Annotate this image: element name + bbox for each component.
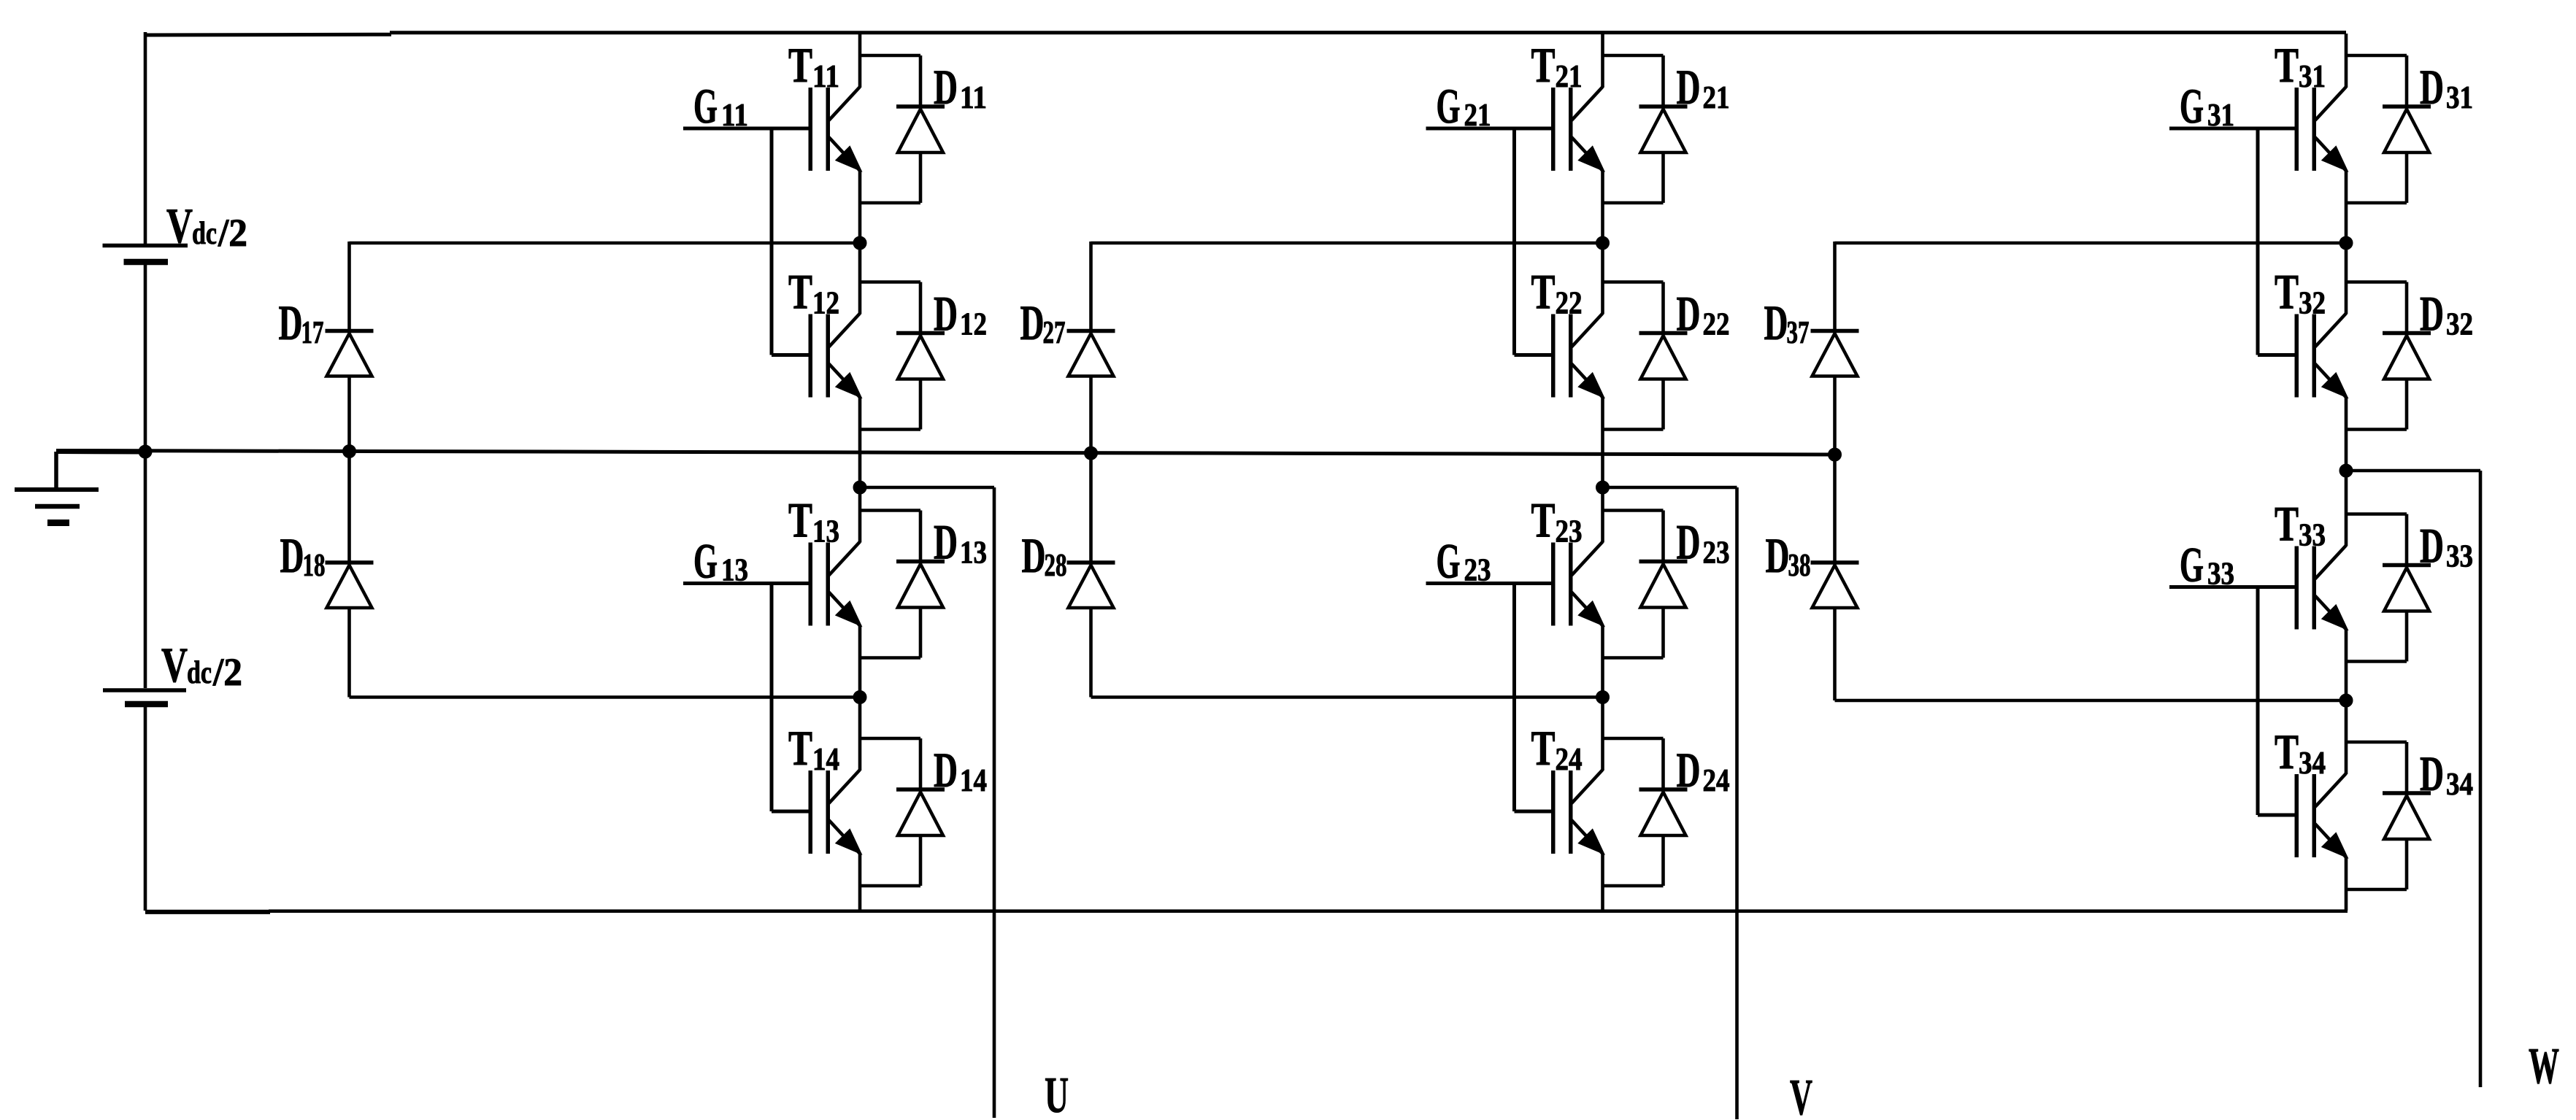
- wire: gate link T11-T12: [770, 128, 774, 355]
- wire: gate spur to T12: [772, 353, 812, 357]
- wire: leg 3 collector of T31 from DC+ rail: [2345, 34, 2348, 88]
- svg-text:T: T: [2275, 496, 2299, 552]
- clamp diode D27: [1067, 331, 1115, 376]
- wire: output branch W: [2346, 469, 2480, 473]
- svg-text:T: T: [788, 493, 812, 548]
- svg-text:G: G: [2180, 537, 2204, 592]
- wire: collector of T23: [1601, 487, 1604, 543]
- wire: D28 anode down: [1089, 608, 1093, 698]
- wire: collector of T33: [2345, 471, 2348, 547]
- node: clamp midpoint on neutral bus: [1829, 448, 1842, 461]
- svg-text:G: G: [1437, 78, 1461, 134]
- transistor T14 (IGBT): [809, 770, 861, 854]
- diode D34 (anti-parallel): [2346, 742, 2431, 889]
- battery V_dc/2 (upper): [103, 244, 188, 248]
- svg-text:38: 38: [1788, 547, 1811, 583]
- svg-text:13: 13: [812, 514, 839, 549]
- svg-text:24: 24: [1703, 762, 1730, 798]
- transistor T22 (IGBT): [1551, 314, 1604, 398]
- node: T21/T22 junction: [1596, 236, 1610, 250]
- wire: output branch V: [1603, 486, 1737, 490]
- transistor T31 (IGBT): [2295, 87, 2348, 171]
- svg-text:D: D: [1766, 528, 1790, 583]
- diode D33 (anti-parallel): [2346, 514, 2431, 662]
- wire: collector of T24: [1601, 698, 1604, 771]
- wire: emitter of T23 to junction: [1601, 626, 1604, 698]
- wire: gate link T33-T34: [2256, 587, 2260, 816]
- svg-text:D: D: [2420, 746, 2444, 801]
- wire: leg 1 collector of T11 from DC+ rail: [858, 34, 862, 88]
- wire: neutral bus (midpoint): [56, 451, 1835, 455]
- gate wire G33: [2169, 585, 2299, 589]
- wire: D18 to T13/T14 junction: [350, 695, 861, 699]
- wire: emitter of T21 to junction: [1601, 171, 1604, 243]
- diode D21 (anti-parallel): [1603, 55, 1688, 203]
- svg-text:G: G: [693, 533, 718, 589]
- gate wire G11: [683, 127, 812, 131]
- svg-text:T: T: [1531, 493, 1556, 548]
- wire: output line V down: [1735, 487, 1739, 1119]
- svg-text:T: T: [2275, 724, 2299, 779]
- wire: ground branch stub: [56, 449, 145, 455]
- wire: DC bus left column (battery string): [144, 32, 147, 244]
- wire: collector of T34: [2345, 700, 2348, 774]
- clamp diode D38: [1811, 563, 1859, 608]
- svg-text:V: V: [1790, 1070, 1812, 1120]
- wire: output line W down: [2479, 471, 2483, 1087]
- wire: junction to clamp diode D27: [1091, 242, 1603, 245]
- node: phase output junction V: [1596, 481, 1610, 494]
- svg-text:G: G: [1437, 533, 1461, 589]
- wire: D37 anode to neutral: [1833, 376, 1837, 455]
- wire: battery column bottom segment: [144, 707, 147, 911]
- svg-text:18: 18: [303, 547, 326, 583]
- svg-text:T: T: [788, 720, 812, 776]
- clamp diode D17: [326, 331, 374, 376]
- wire: emitter of T14 to DC- rail: [858, 854, 862, 911]
- svg-text:/2: /2: [212, 650, 242, 694]
- wire: collector of T13: [858, 487, 862, 543]
- svg-text:D: D: [2420, 59, 2444, 115]
- transistor T24 (IGBT): [1551, 770, 1604, 854]
- svg-text:/2: /2: [218, 211, 247, 255]
- svg-text:34: 34: [2299, 745, 2326, 781]
- svg-text:T: T: [2275, 37, 2299, 93]
- node: battery midpoint / neutral junction: [139, 445, 152, 458]
- svg-text:22: 22: [1703, 306, 1730, 342]
- svg-text:G: G: [2180, 78, 2204, 134]
- diode D24 (anti-parallel): [1603, 738, 1688, 886]
- wire: negative DC rail (bottom, left span): [145, 910, 270, 914]
- wire: D27 anode to neutral: [1089, 376, 1093, 454]
- diode D12 (anti-parallel): [860, 282, 945, 430]
- diode D22 (anti-parallel): [1603, 282, 1688, 430]
- svg-text:D: D: [1677, 514, 1701, 570]
- wire: gate link T31-T32: [2256, 128, 2260, 355]
- svg-text:14: 14: [812, 741, 839, 777]
- node: phase output junction U: [853, 481, 866, 494]
- wire: neutral to D28 cathode: [1089, 453, 1093, 563]
- wire: gate spur to T22: [1515, 353, 1556, 357]
- wire: junction to clamp diode D37: [1835, 242, 2347, 245]
- wire: emitter of T22 to output junction (crosses neutral): [1601, 398, 1604, 488]
- ground: [54, 452, 58, 490]
- svg-text:U: U: [1045, 1067, 1069, 1120]
- svg-text:V: V: [161, 637, 188, 692]
- svg-text:dc: dc: [187, 654, 212, 690]
- svg-text:21: 21: [1464, 97, 1491, 133]
- wire: positive DC rail (top, right span): [390, 31, 2346, 34]
- wire: D38 anode down: [1833, 608, 1837, 700]
- wire: collector of T14: [858, 698, 862, 771]
- wire: neutral to D18 cathode: [347, 452, 351, 563]
- svg-text:21: 21: [1556, 58, 1583, 94]
- wire: gate spur to T32: [2258, 353, 2299, 357]
- svg-text:32: 32: [2299, 285, 2326, 321]
- diode D11 (anti-parallel): [860, 55, 945, 203]
- svg-text:D: D: [934, 59, 958, 115]
- wire: D17 anode to neutral: [347, 376, 351, 452]
- svg-text:14: 14: [960, 762, 987, 798]
- svg-text:D: D: [1764, 295, 1788, 350]
- wire: D18 anode down: [347, 608, 351, 698]
- wire: gate spur to T14: [772, 810, 812, 814]
- transistor T32 (IGBT): [2295, 314, 2348, 398]
- svg-text:D: D: [280, 528, 304, 583]
- svg-text:11: 11: [812, 58, 839, 94]
- svg-text:G: G: [693, 78, 718, 134]
- svg-text:34: 34: [2446, 766, 2473, 802]
- svg-text:13: 13: [960, 535, 987, 571]
- wire: gate spur to T24: [1515, 810, 1556, 814]
- svg-text:D: D: [279, 295, 303, 350]
- wire: emitter of T34 to DC- rail: [2345, 857, 2348, 911]
- svg-text:21: 21: [1703, 80, 1730, 115]
- transistor T34 (IGBT): [2295, 773, 2348, 857]
- svg-text:28: 28: [1045, 547, 1067, 583]
- transistor T12 (IGBT): [809, 314, 861, 398]
- wire: emitter of T13 to junction: [858, 626, 862, 698]
- wire: output line U down: [993, 487, 996, 1118]
- wire: gate spur to T34: [2258, 814, 2299, 817]
- clamp diode D18: [326, 563, 374, 608]
- wire: emitter of T12 to output junction (crosses neutral): [858, 398, 862, 488]
- node: T23/T24 junction: [1596, 691, 1610, 704]
- svg-text:T: T: [2275, 264, 2299, 320]
- node: T13/T14 junction: [853, 691, 866, 704]
- wire: collector of T12: [858, 243, 862, 314]
- wire: emitter of T24 to DC- rail: [1601, 854, 1604, 911]
- svg-text:D: D: [2420, 286, 2444, 341]
- svg-text:37: 37: [1787, 314, 1810, 350]
- wire: clamp column upper (to D37 cathode): [1833, 242, 1837, 331]
- svg-text:27: 27: [1043, 314, 1066, 350]
- svg-text:11: 11: [721, 97, 748, 133]
- wire: gate link T23-T24: [1512, 584, 1516, 812]
- wire: emitter of T11 to junction: [858, 171, 862, 243]
- svg-text:22: 22: [1556, 285, 1583, 321]
- diode D31 (anti-parallel): [2346, 55, 2431, 203]
- wire: emitter of T31 to junction: [2345, 171, 2348, 243]
- svg-text:D: D: [1677, 742, 1701, 797]
- svg-text:T: T: [788, 37, 812, 93]
- gate wire G23: [1426, 582, 1556, 585]
- svg-text:V: V: [166, 198, 193, 253]
- wire: battery column mid segment: [144, 265, 147, 688]
- transistor T23 (IGBT): [1551, 542, 1604, 626]
- wire: collector of T22: [1601, 243, 1604, 314]
- wire: emitter of T33 to junction: [2345, 630, 2348, 701]
- svg-text:D: D: [2420, 518, 2444, 573]
- transistor T13 (IGBT): [809, 542, 861, 626]
- transistor T11 (IGBT): [809, 87, 861, 171]
- svg-text:W: W: [2529, 1038, 2559, 1094]
- diode D32 (anti-parallel): [2346, 282, 2431, 430]
- diode D13 (anti-parallel): [860, 511, 945, 658]
- diode D23 (anti-parallel): [1603, 511, 1688, 658]
- svg-text:D: D: [934, 742, 958, 797]
- wire: gate link T21-T22: [1512, 128, 1516, 355]
- wire: junction to clamp diode D17: [350, 242, 861, 245]
- wire: clamp column upper (to D17 cathode): [347, 242, 351, 331]
- wire: D38 to T33/T34 junction: [1835, 699, 2347, 703]
- node: T33/T34 junction: [2339, 694, 2353, 707]
- gate wire G21: [1426, 127, 1556, 131]
- transistor T21 (IGBT): [1551, 87, 1604, 171]
- svg-text:T: T: [1531, 37, 1556, 93]
- svg-text:12: 12: [960, 306, 987, 342]
- svg-text:23: 23: [1703, 535, 1730, 571]
- node: clamp midpoint on neutral bus: [1085, 447, 1098, 460]
- svg-text:12: 12: [812, 285, 839, 321]
- wire: leg 2 collector of T21 from DC+ rail: [1601, 34, 1604, 88]
- wire: negative DC rail (bottom, right span): [269, 909, 2348, 913]
- svg-text:33: 33: [2207, 556, 2234, 592]
- svg-text:23: 23: [1464, 552, 1491, 588]
- wire: D28 to T23/T24 junction: [1091, 695, 1603, 699]
- svg-text:31: 31: [2446, 80, 2473, 115]
- svg-text:32: 32: [2446, 306, 2473, 342]
- node: clamp midpoint on neutral bus: [343, 445, 356, 458]
- wire: collector of T32: [2345, 243, 2348, 314]
- svg-text:D: D: [1020, 295, 1045, 350]
- svg-text:T: T: [1531, 720, 1556, 776]
- clamp diode D28: [1067, 563, 1115, 608]
- svg-text:T: T: [1531, 264, 1556, 320]
- svg-text:D: D: [934, 514, 958, 570]
- node: T11/T12 junction: [853, 236, 866, 250]
- node: T31/T32 junction: [2339, 236, 2353, 250]
- svg-text:23: 23: [1556, 514, 1583, 549]
- battery V_dc/2 (lower): [103, 688, 186, 692]
- clamp diode D37: [1811, 331, 1859, 376]
- wire: gate link T13-T14: [770, 584, 774, 812]
- svg-text:13: 13: [721, 552, 748, 588]
- wire: clamp column upper (to D27 cathode): [1089, 242, 1093, 331]
- diode D14 (anti-parallel): [860, 738, 945, 886]
- svg-text:dc: dc: [192, 215, 217, 251]
- wire: neutral to D38 cathode: [1833, 455, 1837, 563]
- svg-text:17: 17: [301, 314, 324, 350]
- wire: positive DC rail (top, left span): [145, 33, 391, 37]
- transistor T33 (IGBT): [2295, 546, 2348, 630]
- gate wire G13: [683, 582, 812, 585]
- svg-text:24: 24: [1556, 741, 1583, 777]
- svg-text:31: 31: [2207, 97, 2234, 133]
- svg-text:33: 33: [2446, 538, 2473, 574]
- gate wire G31: [2169, 127, 2299, 131]
- svg-text:D: D: [934, 286, 958, 341]
- svg-text:11: 11: [960, 80, 987, 115]
- svg-text:D: D: [1022, 528, 1046, 583]
- svg-text:31: 31: [2299, 58, 2326, 94]
- svg-text:33: 33: [2299, 517, 2326, 553]
- wire: emitter of T32 to output junction (crosses neutral): [2345, 398, 2348, 471]
- svg-text:D: D: [1677, 286, 1701, 341]
- node: phase output junction W: [2339, 464, 2353, 477]
- wire: output branch U: [860, 486, 994, 490]
- svg-text:D: D: [1677, 59, 1701, 115]
- svg-text:T: T: [788, 264, 812, 320]
